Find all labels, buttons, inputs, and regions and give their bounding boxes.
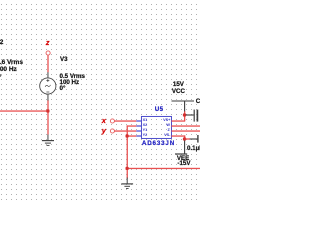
wire: horizontal net from left edge to V3 bottom node (0, 110, 48, 111)
junction: V3 bottom net (46, 109, 49, 112)
wire: ground rail to right edge (127, 168, 200, 169)
label V3 value 0 deg (60, 86, 66, 92)
label AD633JN (142, 141, 175, 147)
junction: ground rail (126, 167, 129, 170)
label V2 (clipped at left edge) (0, 40, 3, 46)
source V3 minus sign (46, 91, 49, 93)
node y connector circle (110, 129, 114, 133)
wire: VEE junction to capacitor C5 (186, 138, 191, 139)
junction: VEE net (183, 137, 186, 140)
source V3 plus sign (46, 79, 49, 82)
wire: node z down to V3 plus terminal (47, 55, 48, 72)
label V2 value 0 deg (0, 75, 1, 81)
node label y (102, 127, 106, 135)
label V2 value 0.6 Vrms (0, 60, 23, 66)
label V3 value 100 Hz (60, 80, 80, 86)
op-amp multiplier U5 AD633JN body (141, 116, 171, 138)
source V3 bottom terminal stub (47, 94, 48, 101)
VEE power symbol (175, 141, 187, 155)
wire: grounded vertical bus at x=127 (127, 125, 128, 178)
capacitor C4 top decoupling cap (186, 110, 198, 122)
chip pin name VS+ (163, 119, 170, 123)
wire: VS+ pin to VCC junction (171, 120, 185, 121)
ground symbol below V3 (42, 135, 54, 146)
junction: VCC net (183, 113, 186, 116)
VCC power symbol (172, 101, 195, 111)
wire: into chip pin Y2 (127, 135, 137, 136)
chip pin name VS- (164, 134, 170, 138)
source V3 top terminal stub (47, 72, 48, 78)
chip pin name Y2 (143, 134, 148, 138)
wire: VS- pin to VEE junction (171, 135, 185, 136)
label VCC (172, 89, 185, 95)
wire: VCC junction vertical (184, 111, 185, 121)
wire: Z pin to right edge (171, 130, 200, 131)
source V3 sine squiggle (45, 85, 50, 87)
node z connector circle (46, 51, 50, 55)
wire: W output pin to right edge (171, 125, 200, 126)
source V3 AC sine voltage source circle (40, 78, 56, 94)
chip pin name X2 (143, 124, 148, 128)
wire: V3 bottom vertical to ground (47, 100, 48, 135)
label C4 (clipped at right edge) (196, 99, 204, 105)
chip pin name X1 (143, 119, 148, 123)
label 0.1uF (clipped at right edge) (187, 146, 203, 152)
wire: into chip pin X2 (127, 125, 137, 126)
label V3 (60, 57, 68, 63)
label U5 (155, 107, 164, 113)
wire: VS- down to VEE junction (184, 135, 185, 140)
wire: node x to chip pin X1 (114, 120, 136, 121)
label V3 value 0.5 Vrms (60, 74, 85, 80)
junction: Y2 grounded bus (126, 134, 129, 137)
chip pin name Z (167, 129, 169, 133)
chip pin name W (166, 124, 170, 128)
chip pin name Y1 (143, 129, 148, 133)
node x connector circle (110, 119, 114, 123)
label V2 value 100 Hz (0, 67, 17, 73)
chip U5 pin stubs left (blue) (136, 121, 141, 136)
label -15V (177, 161, 190, 167)
ground symbol below chip bus (121, 178, 133, 189)
node label z (46, 39, 50, 47)
capacitor C5 bottom decoupling cap (190, 135, 198, 143)
label VEE (177, 156, 189, 162)
wire: node y to chip pin Y1 (114, 130, 136, 131)
node label x (102, 117, 106, 125)
label 15V (173, 82, 184, 88)
